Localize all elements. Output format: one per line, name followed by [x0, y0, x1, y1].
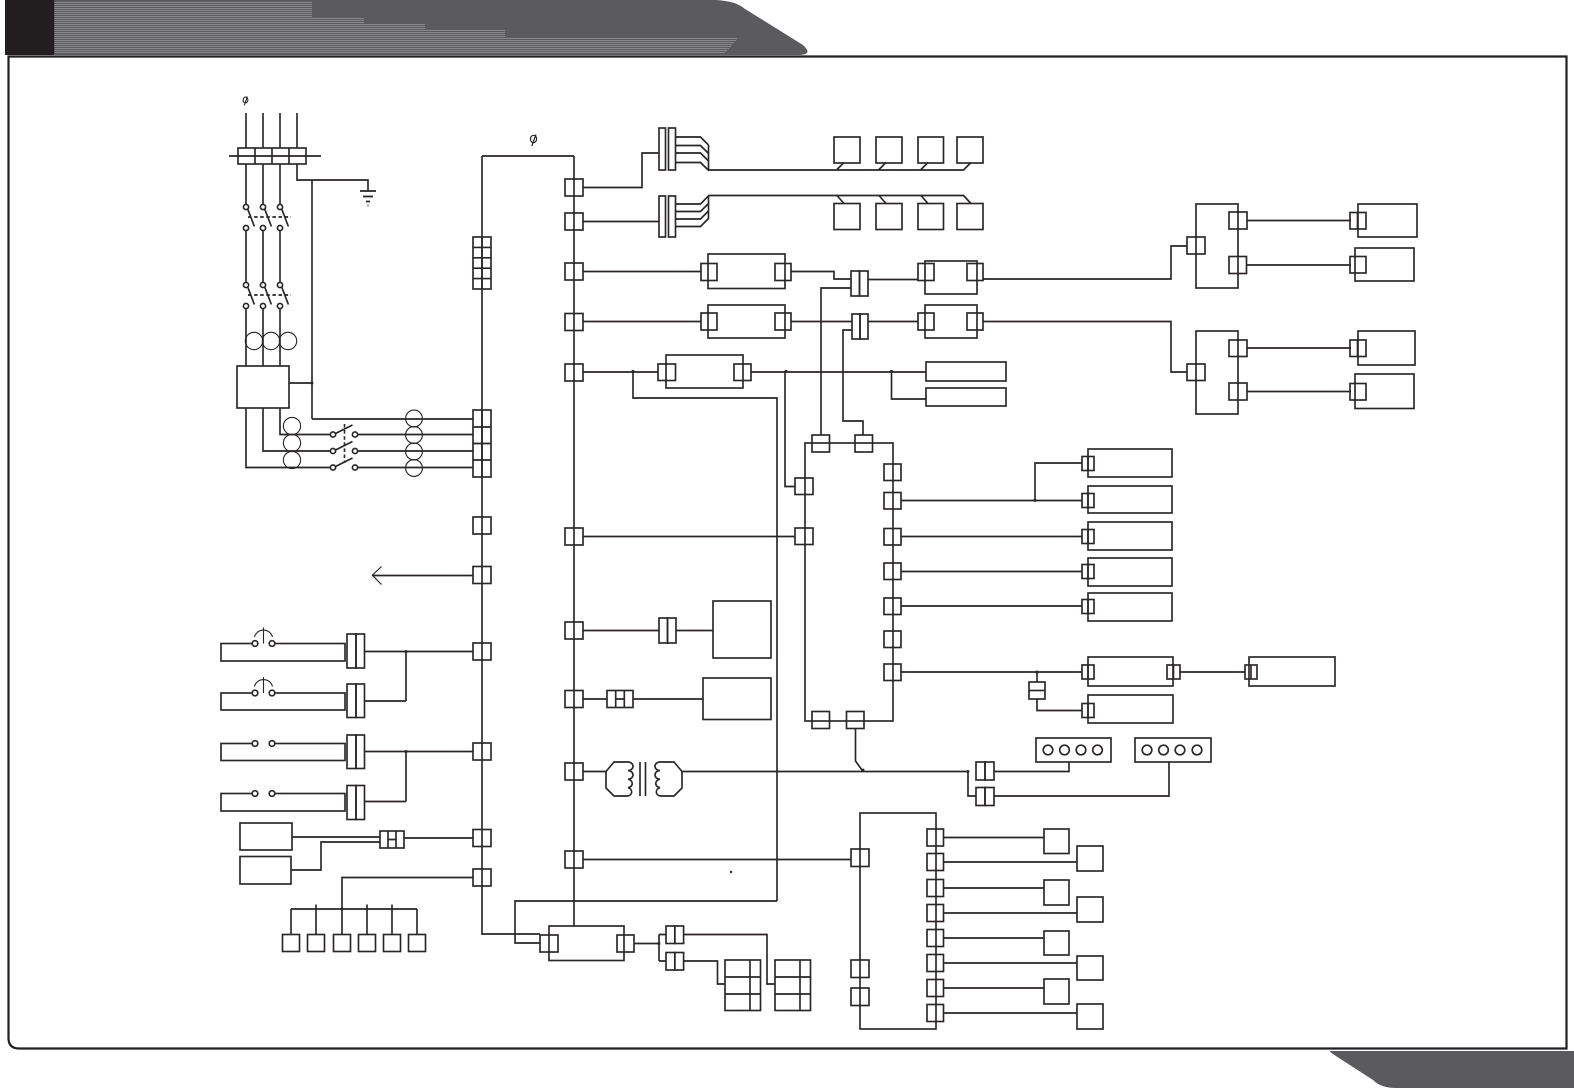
wire TS1 out6: [944, 962, 1078, 964]
wire pole3 to CT: [279, 309, 281, 367]
wire module E feed: [583, 630, 659, 632]
wire harness run 2: [709, 196, 972, 204]
wire tap B3: [921, 195, 929, 204]
wire pole3 mid: [279, 231, 281, 284]
terminal K3 left: [701, 313, 717, 330]
wire F1 to load D7: [1037, 699, 1082, 711]
wire branch to lower bus: [633, 372, 777, 901]
connector CN3: [851, 271, 860, 296]
wire U1 bottom drop: [856, 729, 864, 772]
output square H5: [384, 935, 401, 952]
breaker CB1 pole2: [260, 204, 265, 209]
terminal K4 left: [918, 313, 934, 330]
wire D6 to D8: [1180, 671, 1245, 673]
junction ticks: [311, 370, 1039, 945]
wire fan-out CN1: [676, 137, 709, 171]
relay K3 body: [708, 305, 785, 338]
terminal strip TS1 body: [860, 813, 936, 1029]
pin block B: [775, 960, 811, 1011]
wire harness feed 1: [583, 153, 659, 188]
wire CN5 to module E: [676, 630, 713, 632]
connector P1: [976, 762, 985, 780]
fuse block FB1: [473, 237, 491, 289]
terminal bus1-c: [473, 643, 491, 660]
wire K5 out: [751, 371, 926, 373]
load box C4: [1355, 374, 1414, 409]
wire relay row3 feed: [583, 371, 658, 373]
ground: [360, 191, 376, 206]
relay K4 body: [925, 305, 977, 338]
lamp square B3: [918, 204, 944, 230]
wire power box aux feed: [515, 901, 777, 943]
terminal U1 right-3: [884, 529, 901, 546]
connector CN5: [659, 618, 668, 643]
terminal U1 top-a: [812, 435, 830, 452]
wire bus top link: [482, 155, 574, 157]
relay K5 body: [666, 355, 743, 388]
sensor SW2 actuator: [255, 677, 273, 693]
relay K2 body: [925, 261, 977, 294]
terminal TS1 out7: [927, 980, 944, 997]
terminal bus2-D: [565, 314, 583, 331]
wire module F feed: [583, 698, 607, 700]
wire neutral run: [297, 164, 368, 191]
load square E6: [1077, 956, 1103, 980]
pilot strip PS1: [1036, 738, 1111, 762]
device box G2: [240, 857, 291, 885]
wire TS1 out4: [944, 912, 1078, 914]
fuse F1: [1036, 672, 1038, 682]
terminal load D7: [1082, 704, 1094, 718]
terminal bus1-b: [473, 567, 491, 584]
wire RB1 out2: [1247, 264, 1352, 266]
wire row4 to stack: [358, 467, 474, 469]
terminal load C1: [1350, 213, 1366, 230]
load box C3: [1358, 331, 1415, 365]
terminal U1 right-2: [884, 493, 901, 510]
wire CN3 out: [868, 279, 918, 281]
terminal TS1 out8: [927, 1005, 944, 1022]
manifold stubs: [291, 905, 417, 935]
terminal bus2-I: [565, 763, 583, 780]
terminal U1 right-1: [884, 464, 901, 481]
terminal U1 bottom-2: [847, 712, 865, 729]
wire motor lead2: [263, 408, 330, 451]
terminal U1 right-5: [884, 598, 901, 615]
terminal TS1 aux1: [851, 960, 869, 978]
wire tap B1: [837, 195, 845, 204]
terminal U1 bottom-1: [812, 712, 830, 729]
module box F: [703, 678, 771, 720]
terminal PB1 left: [540, 935, 558, 952]
wire tap A1: [837, 163, 845, 171]
terminal U1 left-2: [795, 528, 813, 545]
output square H3: [334, 935, 351, 952]
wire RB1 out1: [1247, 220, 1351, 222]
wire pole3 to breaker: [279, 164, 281, 204]
wire motor lead1: [246, 408, 330, 468]
wire SW4 out: [365, 801, 407, 803]
wire U1 pin3: [901, 536, 1082, 538]
terminal TS1 out1: [927, 829, 944, 846]
load box D5: [1088, 593, 1172, 621]
transformer TR1 core: [640, 762, 646, 796]
terminal K4 right: [967, 313, 983, 330]
output square H4: [359, 935, 376, 952]
terminal load C4: [1350, 384, 1366, 401]
wire P4 to block A: [684, 961, 725, 984]
sensor SW3 contact gap: [252, 742, 274, 745]
output square H6: [409, 935, 426, 952]
switch S1 pole2: [330, 448, 335, 453]
sensor SW1 contact gap: [252, 642, 274, 645]
relay K1 body: [708, 254, 785, 289]
terminal load D2: [1082, 494, 1094, 508]
terminal K3 right: [775, 313, 791, 330]
terminal load D8: [1245, 665, 1257, 679]
lamp square A3: [918, 137, 944, 163]
header black block: [5, 0, 54, 55]
resistor R1: [926, 362, 1006, 381]
connector CN2: [659, 196, 666, 237]
terminal TS1 out4: [927, 905, 944, 922]
wire tap A3: [921, 163, 929, 171]
load square E2: [1077, 846, 1103, 871]
switch S1 pole3: [330, 465, 335, 470]
load box D4: [1088, 558, 1172, 586]
wire P1 to strip1: [994, 762, 1069, 772]
wire relay row1 feed: [583, 271, 701, 273]
wire RB2 out2: [1247, 391, 1351, 393]
stray dot: [730, 871, 732, 873]
terminal RB1 out2: [1229, 257, 1247, 274]
terminal load C3: [1350, 340, 1366, 357]
output square H1: [283, 935, 300, 952]
wire U1 pin4: [901, 571, 1082, 573]
header gray band: [54, 0, 807, 55]
terminal RB2 left: [1187, 364, 1205, 381]
power box PB1: [549, 926, 624, 961]
wire K3 out: [791, 321, 852, 323]
terminal bus1-a: [473, 517, 491, 534]
wire CN6 to module F: [633, 698, 703, 700]
connector CN4: [852, 314, 860, 339]
connector CN6: [607, 691, 633, 708]
wire K1 out: [791, 272, 851, 280]
wire bus1 to manifold: [342, 878, 473, 910]
load square E3: [1044, 880, 1069, 905]
terminal PB1 right: [617, 935, 634, 952]
wire TS1 out2: [944, 861, 1078, 863]
starter box A1: [237, 366, 289, 408]
wire motor lead3: [280, 408, 330, 435]
connector P2: [976, 788, 985, 806]
terminal bus2-C: [565, 263, 583, 280]
terminal RB1 left: [1187, 237, 1205, 254]
terminal load D3: [1082, 530, 1094, 544]
wire split bracket: [659, 935, 666, 962]
load square E7: [1044, 979, 1069, 1004]
wire L3 input drop: [279, 113, 281, 148]
load box D2: [1088, 486, 1172, 513]
wire branch to controller L1: [785, 372, 795, 487]
load box D6: [1088, 657, 1173, 686]
sensor SW3 body: [221, 744, 345, 761]
terminal TS1 aux2: [851, 988, 869, 1006]
wire U1 pin5: [901, 605, 1082, 607]
terminal bus2-F: [565, 528, 583, 545]
terminal bus2-E: [565, 364, 583, 381]
CT secondary T3: [406, 443, 423, 460]
sensor SW2 contacts: [252, 690, 258, 696]
coil stack W2: [283, 434, 300, 451]
wire pole2 to breaker: [262, 164, 264, 204]
terminal TS1 in: [851, 849, 869, 867]
wire junction drop r3-r4: [405, 752, 407, 802]
wire L2 input drop: [262, 113, 264, 148]
wire G1 out: [292, 836, 380, 838]
terminal bus2-J: [565, 851, 583, 868]
connector SW4: [347, 786, 356, 820]
terminal U1 right-6: [884, 631, 901, 648]
wire P2 to strip2: [994, 762, 1169, 796]
connector CN7: [380, 831, 404, 848]
load square E5: [1044, 931, 1069, 955]
terminal bus2-B: [565, 213, 583, 230]
terminal U1 top-b: [855, 435, 873, 452]
connector CN1: [659, 128, 666, 170]
terminal bus2-A: [565, 179, 583, 196]
wire TS1 out8: [944, 1012, 1078, 1014]
coil stack W3: [283, 451, 300, 468]
wire bus2 vertical: [573, 156, 575, 926]
terminal bus1-e: [473, 830, 491, 847]
terminal load D5: [1082, 600, 1094, 614]
load box C2: [1355, 248, 1414, 281]
wire G2 out: [291, 842, 380, 870]
CT secondary T1: [406, 410, 423, 427]
wire pole2 mid: [262, 231, 264, 284]
wire N input drop: [296, 113, 298, 148]
wire L1 input drop: [245, 113, 247, 148]
wire pole1 to CT: [245, 309, 247, 367]
lamp square B2: [876, 204, 902, 230]
terminal load D6: [1082, 665, 1094, 679]
sensor SW3 contacts: [252, 741, 258, 747]
sensor SW2 body: [221, 693, 345, 710]
connector SW2: [347, 684, 356, 718]
connector SW1: [347, 634, 356, 668]
coil stack W1: [283, 417, 300, 434]
wire row2 to stack: [358, 434, 474, 436]
breaker CB1 pole3: [277, 204, 282, 209]
lamp square A1: [834, 137, 860, 163]
controller U1 body: [805, 443, 893, 721]
terminal bus2-G: [565, 622, 583, 639]
sensor SW2 contact gap: [252, 692, 274, 695]
manifold bus: [291, 908, 417, 910]
breaker CB1 link: [248, 216, 291, 218]
current transformer CT3: [279, 332, 296, 349]
node phi label (power input): [243, 97, 248, 106]
wire P3 to block B: [684, 935, 775, 985]
module box E: [713, 601, 771, 658]
breaker CB1 pole1: [243, 204, 248, 209]
terminal K5 left: [658, 364, 676, 381]
transformer TR1 primary coil: [606, 762, 633, 796]
wire transformer primary feed: [583, 771, 606, 773]
terminal RB1 out1: [1229, 212, 1247, 229]
terminal bus1-f: [473, 869, 491, 886]
device box G1: [240, 823, 292, 850]
load square E1: [1044, 829, 1069, 854]
header pinstripes: [55, 3, 737, 53]
wire branch to load D1: [1035, 463, 1082, 501]
terminal bus1-d: [473, 743, 491, 760]
current transformer CT2: [262, 332, 279, 349]
terminal K1 right: [775, 264, 791, 281]
current transformer CT1: [245, 332, 262, 349]
wire transformer secondary run: [682, 771, 968, 773]
wire CN4 out: [868, 321, 918, 323]
terminal bus2-H: [565, 691, 583, 708]
load box D7: [1088, 695, 1173, 723]
lamp square B1: [834, 204, 860, 230]
wire row3 to stack: [358, 450, 474, 452]
fuse block FB2: [473, 410, 491, 477]
contactor CB2 pole3: [277, 282, 282, 287]
sensor SW4 contacts: [252, 791, 258, 797]
bottom-right gray wedge: [1330, 1051, 1574, 1088]
wire SW2 out: [365, 700, 407, 702]
terminal K2 left: [918, 264, 934, 281]
wire PB1 out: [634, 943, 659, 945]
wire RB2 out1: [1247, 347, 1351, 349]
load square E8: [1077, 1004, 1103, 1029]
wire row1 to stack: [312, 418, 473, 420]
wire fan-in CN2: [676, 196, 709, 227]
wire arrow lead: [373, 575, 474, 577]
wire tap B2: [879, 195, 887, 204]
wire relay row2 feed: [583, 321, 701, 323]
wire pole1 mid: [245, 231, 247, 284]
terminal RB2 out1: [1229, 340, 1247, 357]
lamp square B4: [957, 204, 983, 230]
wire branch to resistor R2: [892, 372, 927, 399]
terminal load C2: [1350, 257, 1366, 274]
lamp square A2: [876, 137, 902, 163]
wire terminal strip feed: [583, 859, 851, 861]
terminal TS1 out2: [927, 854, 944, 871]
wire TS1 out3: [944, 887, 1045, 889]
load box D8: [1249, 657, 1335, 686]
wire TS1 out7: [944, 987, 1045, 989]
wire CN7 to bus1: [404, 837, 473, 839]
transformer TR1 secondary coil: [655, 762, 682, 796]
wire tap CN3 to controller: [821, 288, 851, 435]
relay block RB1: [1196, 204, 1238, 288]
wire K4 to block R2: [983, 322, 1187, 373]
wire pole1 to breaker: [245, 164, 247, 204]
sensor SW1 body: [221, 644, 345, 662]
wire controller L2 feed: [583, 536, 795, 538]
terminal load D4: [1082, 565, 1094, 579]
switch S1 link: [344, 424, 346, 463]
sensor SW4 body: [221, 794, 345, 812]
terminal K5 right: [734, 364, 751, 381]
terminal TS1 out5: [927, 930, 944, 947]
terminal D6 right: [1167, 665, 1180, 679]
wire TS1 out5: [944, 937, 1045, 939]
load box D3: [1088, 522, 1172, 550]
terminal U1 right-7: [884, 664, 901, 681]
connector P3: [666, 926, 675, 944]
output square H2: [308, 935, 325, 952]
load square E4: [1077, 897, 1103, 922]
wire U1 pin2 to loads: [901, 500, 1082, 502]
contactor CB2 pole1: [243, 282, 248, 287]
connector P4: [666, 953, 675, 971]
wire through TB1: [229, 155, 321, 157]
wire harness run 1: [709, 163, 972, 171]
terminal load D1: [1082, 457, 1094, 471]
terminal block TB1: [238, 148, 306, 164]
terminal TS1 out6: [927, 955, 944, 972]
wire pole2 to CT: [262, 309, 264, 367]
wire tap CN4 to controller: [843, 330, 863, 435]
wire SW3 to bus1: [365, 751, 474, 753]
switch S1 pole1: [330, 432, 335, 437]
terminal K1 left: [701, 264, 717, 281]
terminal U1 right-4: [884, 563, 901, 580]
wire A1 to neutral bus: [289, 382, 312, 384]
pin block A: [725, 960, 761, 1011]
terminal K2 right: [967, 264, 983, 281]
load box D1: [1088, 449, 1172, 477]
wire SW1 to bus1: [365, 651, 474, 653]
wire harness feed 2: [583, 221, 659, 223]
connector SW3: [347, 735, 356, 769]
sensor SW1 contacts: [252, 641, 258, 647]
terminal U1 left-1: [795, 478, 813, 495]
wire tap A2: [879, 163, 887, 171]
wire junction drop r1-r2: [405, 652, 407, 702]
CT secondary T2: [406, 427, 423, 444]
lamp square A4: [957, 137, 983, 163]
load box C1: [1358, 204, 1417, 237]
wire K2 to block R1: [983, 246, 1187, 279]
sensor SW4 contact gap: [252, 792, 274, 795]
terminal TS1 out3: [927, 880, 944, 897]
wire U1 pin7: [901, 671, 1082, 673]
terminal RB2 out2: [1229, 383, 1247, 400]
wire neutral bus drop: [311, 180, 313, 419]
resistor R2: [926, 388, 1006, 406]
relay block RB2: [1196, 331, 1238, 414]
CT secondary T4: [406, 460, 423, 477]
contactor CB2 link: [248, 294, 291, 296]
wire bus1 vertical: [482, 156, 540, 934]
node phi label (control bus): [530, 135, 536, 147]
wire TS1 out1: [944, 837, 1045, 839]
sensor SW1 actuator: [255, 628, 273, 644]
pilot strip PS2: [1135, 738, 1211, 762]
wire split to plugs: [968, 772, 976, 797]
contactor CB2 pole2: [260, 282, 265, 287]
arrow head: [372, 567, 382, 585]
